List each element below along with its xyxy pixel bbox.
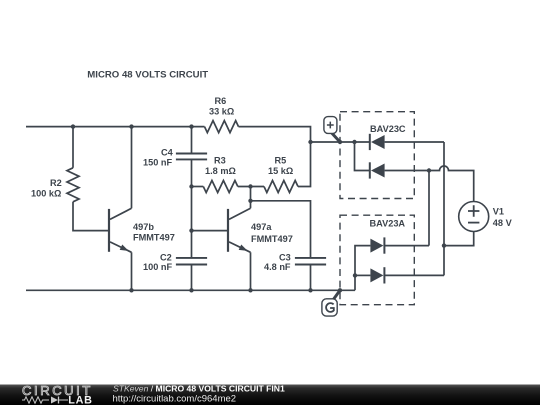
node top rail / center column — [189, 124, 193, 128]
svg-text:BAV23C: BAV23C — [370, 124, 406, 134]
node bottom rail / 497a emitter — [248, 288, 252, 292]
wire C3 bottom — [310, 265, 312, 291]
node bottom rail / G — [338, 288, 342, 292]
svg-text:C4: C4 — [161, 148, 174, 158]
svg-text:1.8 mΩ: 1.8 mΩ — [205, 166, 236, 176]
node bottom rail / C3 — [308, 288, 312, 292]
node top rail / R2 — [71, 124, 75, 128]
wire D1 anode to right column — [385, 141, 444, 143]
svg-text:33 kΩ: 33 kΩ — [209, 107, 234, 117]
svg-text:497b: 497b — [133, 222, 154, 232]
capacitor C3 — [264, 252, 326, 272]
wire D4 cathode to right column — [384, 274, 444, 276]
node D4 anode — [353, 273, 357, 277]
wire hop over right column to V1 — [429, 166, 474, 202]
svg-text:BAV23A: BAV23A — [370, 219, 406, 229]
wire branch to lower BAV23C diode — [355, 142, 370, 171]
node D2-D3 column — [427, 168, 431, 172]
node bottom rail / 497b emitter — [129, 288, 133, 292]
svg-text:15 kΩ: 15 kΩ — [268, 166, 293, 176]
resistor R3 — [203, 181, 238, 193]
wire R3 left lead — [192, 186, 204, 188]
wire anode column BAV23A — [355, 246, 370, 291]
wire R3-R5 junction — [238, 186, 264, 188]
svg-text:R6: R6 — [215, 96, 227, 106]
logo resistor zigzag — [22, 397, 49, 403]
node + flag — [324, 117, 340, 142]
voltage source V1 — [459, 202, 513, 232]
svg-text:STKeven / MICRO 48 VOLTS CIRC: STKeven / MICRO 48 VOLTS CIRCUIT FIN1 — [113, 383, 285, 393]
svg-text:LAB: LAB — [68, 395, 92, 405]
wire center column bottom — [191, 265, 193, 291]
svg-text:150 nF: 150 nF — [143, 158, 172, 168]
wire mid column (D2 anode to D3 cathode) — [428, 171, 430, 246]
svg-text:http://circuitlab.com/c964me2: http://circuitlab.com/c964me2 — [113, 393, 237, 404]
svg-text:R2: R2 — [50, 178, 62, 188]
wire R2 top lead — [72, 127, 74, 168]
svg-text:100 kΩ: 100 kΩ — [31, 189, 61, 199]
wire top rail — [26, 126, 205, 128]
capacitor C2 — [143, 252, 207, 272]
wire center column top (to C4) — [191, 127, 193, 154]
svg-text:4.8 nF: 4.8 nF — [264, 262, 291, 272]
wire D4 anode lead — [355, 274, 370, 276]
svg-text:FMMT497: FMMT497 — [133, 233, 175, 243]
resistor R5 — [264, 181, 298, 193]
wire V1 bottom to right column — [444, 232, 474, 246]
wire bottom rail — [26, 289, 355, 291]
node R3 left — [189, 184, 193, 188]
wire 497b emitter down — [131, 252, 133, 290]
transistor Q 497b — [109, 208, 175, 252]
node bottom rail / C2 — [189, 288, 193, 292]
svg-text:FMMT497: FMMT497 — [251, 234, 293, 244]
node top rail / 497b collector — [129, 124, 133, 128]
node + rail / flag — [338, 140, 342, 144]
wire 497a emitter down — [250, 252, 252, 290]
node + rail / R5 column — [308, 140, 312, 144]
node + rail / D2 branch — [352, 140, 356, 144]
node 497a collector — [248, 199, 252, 203]
svg-text:497a: 497a — [251, 222, 272, 232]
wire D3 cathode to mid column — [384, 245, 429, 247]
transistor Q 497a — [228, 206, 293, 252]
wire R2 bottom lead to 497b base — [73, 202, 110, 231]
wire 497a collector column — [250, 187, 252, 207]
node V1 bottom — [442, 243, 446, 247]
resistor R2 — [67, 168, 79, 202]
wire collector node to C3 column — [251, 201, 311, 258]
node 497a base — [189, 228, 193, 232]
wire right column (D1 anode down to D4 cathode) — [443, 142, 445, 275]
dashed box BAV23C — [340, 112, 414, 199]
wire R5 right lead up to + node — [298, 142, 311, 187]
node R3 right — [248, 184, 252, 188]
wire D2 anode to mid column — [385, 170, 429, 172]
svg-text:C2: C2 — [160, 252, 172, 262]
diode D3 (BAV23A top) — [370, 237, 384, 253]
capacitor C4 — [143, 148, 207, 168]
wire + node rail — [311, 141, 370, 143]
svg-text:MICRO 48 VOLTS CIRCUIT: MICRO 48 VOLTS CIRCUIT — [87, 70, 208, 81]
dashed box BAV23A — [340, 215, 414, 305]
svg-text:R3: R3 — [214, 156, 226, 166]
svg-text:R5: R5 — [275, 156, 287, 166]
logo diode — [51, 397, 58, 404]
wire top rail right of R6 — [239, 127, 311, 142]
wire 497a base from center column — [192, 230, 230, 232]
resistor R6 — [205, 121, 239, 133]
diode D4 (BAV23A bottom) — [370, 267, 384, 283]
wire 497b collector up — [131, 127, 133, 209]
diode D1 (BAV23C top) — [370, 134, 385, 150]
wire center column mid (C4 to C2) — [191, 159, 193, 258]
node G flag — [322, 290, 340, 316]
svg-text:V1: V1 — [493, 207, 504, 217]
diode D2 (BAV23C bottom) — [370, 162, 385, 178]
svg-text:100 nF: 100 nF — [143, 262, 172, 272]
svg-text:48 V: 48 V — [493, 218, 513, 228]
svg-text:C3: C3 — [279, 252, 291, 262]
